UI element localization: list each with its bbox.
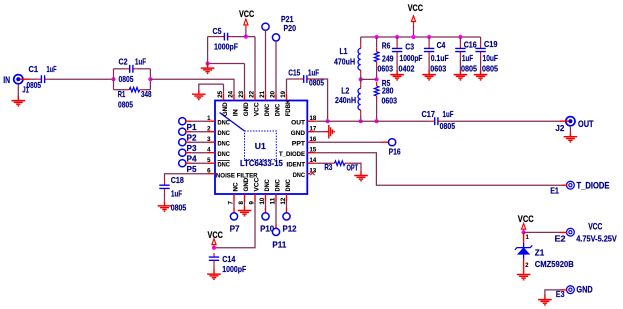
svg-text:0402: 0402 xyxy=(399,63,415,73)
wire bus to C4 xyxy=(428,37,430,44)
U1 pin 1 indicator diagonal xyxy=(220,113,245,132)
U1 exposed pad dashed box xyxy=(245,131,277,160)
wire pin 11 to P11 xyxy=(275,202,277,225)
pin circle P11 xyxy=(272,228,279,235)
svg-text:P5: P5 xyxy=(187,164,197,174)
junction R5/output xyxy=(375,119,379,123)
wire pin 25 to ground xyxy=(199,84,224,90)
wire C15 to output row xyxy=(311,79,328,121)
wire P20 to pin 20 xyxy=(275,41,277,94)
connector J2 xyxy=(566,117,575,126)
wire R6 to R5 xyxy=(376,66,378,80)
wire P7 lead xyxy=(233,208,235,213)
svg-text:11: 11 xyxy=(269,197,276,204)
svg-text:1000pF: 1000pF xyxy=(222,264,246,274)
ground at C19 xyxy=(474,70,488,80)
inductor L2 xyxy=(358,84,361,114)
svg-text:C4: C4 xyxy=(437,40,446,50)
VCC arrow top-right xyxy=(411,16,415,25)
svg-text:DNC: DNC xyxy=(218,120,231,127)
pin circle P12 xyxy=(283,213,290,220)
svg-text:P7: P7 xyxy=(230,223,240,233)
svg-text:J2: J2 xyxy=(555,123,564,133)
wire J1 to ground xyxy=(17,84,19,96)
svg-text:R3: R3 xyxy=(324,162,332,172)
wire to E2 xyxy=(524,231,560,233)
ground at pin 25 xyxy=(192,90,206,100)
terminal E1 xyxy=(567,181,575,189)
svg-text:VCC: VCC xyxy=(253,102,260,116)
wire C4 to ground xyxy=(428,56,430,70)
svg-text:DNC: DNC xyxy=(218,130,231,137)
junction VCC at C5 xyxy=(244,35,248,39)
pin J1.1 stub xyxy=(20,78,30,80)
pin circle P16 xyxy=(389,139,396,146)
ground at pin 17 xyxy=(324,125,334,139)
svg-text:C5: C5 xyxy=(213,26,222,36)
resistor R6 xyxy=(374,48,379,66)
wire R3 to ground xyxy=(349,163,361,171)
zener diode Z1 xyxy=(515,243,532,259)
svg-text:VCC: VCC xyxy=(239,9,254,20)
wire L1 to L2 xyxy=(360,74,362,84)
wire pin 19 to C15 xyxy=(287,78,300,80)
svg-text:OPT: OPT xyxy=(347,163,359,173)
ground at C14 xyxy=(207,270,221,280)
svg-text:C16: C16 xyxy=(464,40,477,50)
svg-text:9: 9 xyxy=(248,201,255,205)
pin circle P20 xyxy=(272,34,279,41)
svg-text:Z1: Z1 xyxy=(535,247,545,257)
ground at pin 8 xyxy=(238,206,252,216)
svg-text:P12: P12 xyxy=(283,223,297,233)
svg-text:GND: GND xyxy=(243,102,250,116)
ground at C16 xyxy=(454,70,468,80)
wire P3 to pin 3 xyxy=(191,141,208,143)
Z1 pin 1 lead xyxy=(523,232,525,242)
wire P21 to pin 21 xyxy=(265,30,267,94)
ground at C3 xyxy=(390,70,404,80)
svg-text:12: 12 xyxy=(280,197,287,204)
capacitor C19 xyxy=(475,44,485,55)
pin circle P2 xyxy=(179,128,186,135)
svg-text:C3: C3 xyxy=(405,42,414,52)
pin 12 stub xyxy=(286,194,288,202)
svg-text:PPT: PPT xyxy=(292,141,305,148)
VCC arrow top-left xyxy=(244,19,248,28)
svg-text:2: 2 xyxy=(525,262,529,269)
svg-text:1: 1 xyxy=(207,115,211,122)
svg-text:E2: E2 xyxy=(555,234,566,244)
capacitor C5 xyxy=(220,33,231,41)
junction bus x=429.1 xyxy=(427,35,431,39)
pin 23 stub xyxy=(244,94,246,101)
wire L1/L2 to R6/R5 xyxy=(361,78,377,80)
wire VCC to bus xyxy=(413,25,415,37)
capacitor C3 xyxy=(392,44,402,55)
svg-text:1uF: 1uF xyxy=(308,67,319,77)
wire pin 10 to P10 xyxy=(265,202,267,209)
ground at J1 xyxy=(12,96,26,106)
pin circle P5 xyxy=(179,160,186,167)
wire pin 16 to P16 xyxy=(315,141,382,143)
capacitor C16 xyxy=(455,44,465,55)
wire pin 23 to C5 node xyxy=(208,63,245,65)
svg-text:3: 3 xyxy=(207,136,211,143)
wire pin 17 xyxy=(315,131,324,133)
no-connect X at pin 13 xyxy=(310,171,314,175)
svg-text:C2: C2 xyxy=(119,57,128,67)
wire pin 18 to C17 xyxy=(315,120,431,122)
pin 21 stub xyxy=(265,94,267,101)
wire P1 to pin 1 xyxy=(191,120,208,122)
wire C18 to ground xyxy=(164,192,166,201)
pin 25 stub xyxy=(223,94,225,101)
svg-text:T_DIODE: T_DIODE xyxy=(279,151,305,158)
svg-text:0805: 0805 xyxy=(27,80,42,90)
inductor L1 xyxy=(358,44,361,74)
wire C5 to pin 22 xyxy=(232,36,255,38)
wire P1 lead xyxy=(186,120,191,122)
wire pin 23 up xyxy=(244,64,246,94)
wire bus to R6 xyxy=(376,37,378,48)
svg-text:LTC6433-15: LTC6433-15 xyxy=(240,158,283,168)
VCC arrow bottom xyxy=(212,239,216,248)
svg-text:19: 19 xyxy=(280,91,287,98)
junction VCC/C14 xyxy=(212,246,216,250)
junction L1/L2 xyxy=(359,77,363,81)
pin 4 stub xyxy=(208,152,216,154)
wire pin 6 to C18 xyxy=(165,174,208,182)
svg-text:4: 4 xyxy=(207,147,211,154)
wire bus to C16 xyxy=(459,37,461,44)
svg-text:0603: 0603 xyxy=(430,63,446,73)
pin 1 stub xyxy=(208,120,216,122)
svg-text:VCC: VCC xyxy=(588,222,602,233)
wire C16 to ground xyxy=(459,56,461,70)
svg-text:OUT: OUT xyxy=(578,119,594,130)
wire C2/R1 left edge xyxy=(113,69,115,90)
wire pin 19 up xyxy=(286,79,288,94)
capacitor C18 xyxy=(159,181,169,192)
svg-text:E3: E3 xyxy=(556,289,565,299)
wire P11 lead xyxy=(275,224,277,229)
svg-text:VCC: VCC xyxy=(518,214,534,225)
svg-text:348: 348 xyxy=(141,89,152,99)
svg-text:0603: 0603 xyxy=(382,96,398,106)
VCC arrow at Z1 xyxy=(522,223,526,232)
svg-text:IN: IN xyxy=(232,109,239,116)
svg-text:C19: C19 xyxy=(484,39,498,49)
svg-text:L2: L2 xyxy=(341,86,349,96)
wire P2 to pin 2 xyxy=(191,131,208,133)
pin 8 stub xyxy=(244,194,246,202)
wire to R1 left xyxy=(114,89,126,91)
capacitor C14 xyxy=(209,253,219,264)
pin 19 stub xyxy=(286,94,288,101)
svg-text:0805: 0805 xyxy=(461,63,477,73)
E3 lead xyxy=(560,289,567,291)
wire VCC arrow down xyxy=(245,28,247,36)
svg-text:P1: P1 xyxy=(187,122,197,132)
svg-text:P2: P2 xyxy=(187,133,197,143)
pin 11 stub xyxy=(275,194,277,202)
junction C2/R1 left xyxy=(111,77,115,81)
pin 6 stub xyxy=(208,173,216,175)
pin 9 stub xyxy=(254,194,256,202)
wire E3 to ground xyxy=(545,290,560,295)
capacitor C17 xyxy=(431,117,442,125)
svg-text:GND: GND xyxy=(222,102,229,116)
junction C5/ground xyxy=(206,61,210,65)
svg-text:L1: L1 xyxy=(340,46,348,56)
pin 3 stub xyxy=(208,141,216,143)
svg-text:C17: C17 xyxy=(422,109,436,119)
junction bus x=397.1 xyxy=(395,35,399,39)
svg-text:249: 249 xyxy=(382,54,394,64)
wire IN net to pin 24 xyxy=(150,79,234,94)
wire J1 to C1 xyxy=(30,78,37,80)
wire P2 lead xyxy=(186,131,191,133)
resistor R3 xyxy=(331,161,349,166)
svg-text:GND: GND xyxy=(576,284,592,295)
wire C2/R1 right edge xyxy=(149,69,151,90)
ground at C18 xyxy=(158,201,172,211)
pin 18 stub xyxy=(307,120,315,122)
pin 20 stub xyxy=(275,94,277,101)
wire J2 to ground xyxy=(569,126,571,132)
svg-text:C1: C1 xyxy=(29,64,39,74)
svg-text:DNC: DNC xyxy=(285,179,292,192)
svg-text:DNC: DNC xyxy=(218,162,231,169)
svg-text:22: 22 xyxy=(248,91,255,98)
pin 10 stub xyxy=(265,194,267,202)
svg-text:R1: R1 xyxy=(118,89,126,99)
wire P4 to pin 4 xyxy=(191,152,208,154)
svg-text:1uF: 1uF xyxy=(47,64,57,74)
svg-text:P20: P20 xyxy=(284,23,297,33)
svg-text:0805: 0805 xyxy=(440,121,456,131)
svg-text:7: 7 xyxy=(227,201,234,205)
wire bus to C3 xyxy=(396,37,398,44)
junction bus x=460.4 xyxy=(458,35,462,39)
pin circle P3 xyxy=(179,139,186,146)
wire P12 lead xyxy=(286,208,288,213)
pin circle P10 xyxy=(262,213,269,220)
wire P3 lead xyxy=(186,141,191,143)
pin circle P7 xyxy=(230,213,237,220)
svg-text:21: 21 xyxy=(259,91,266,98)
svg-text:470uH: 470uH xyxy=(334,57,355,67)
svg-text:DNC: DNC xyxy=(218,141,231,148)
pin 15 stub xyxy=(307,152,315,154)
ground at R3 xyxy=(354,171,368,181)
svg-text:280: 280 xyxy=(382,86,394,96)
wire P10 lead xyxy=(265,208,267,213)
pin 24 stub xyxy=(233,94,235,101)
svg-text:IDENT: IDENT xyxy=(287,162,306,169)
svg-text:10: 10 xyxy=(259,197,266,204)
svg-text:20: 20 xyxy=(269,91,276,98)
svg-text:24: 24 xyxy=(227,91,234,98)
junction R6/R5 xyxy=(375,77,379,81)
svg-text:P11: P11 xyxy=(272,239,286,249)
pin circle P4 xyxy=(179,149,186,156)
wire P16 lead xyxy=(382,141,389,143)
wire C1 to C2/R1 xyxy=(49,78,114,80)
wire C2 right xyxy=(137,68,151,70)
pin circle P1 xyxy=(179,118,186,125)
svg-text:23: 23 xyxy=(238,91,245,98)
junction bus x=376.6 xyxy=(375,35,379,39)
svg-text:P3: P3 xyxy=(187,143,197,153)
svg-text:P4: P4 xyxy=(187,154,197,164)
wire P5 to pin 5 xyxy=(191,162,208,164)
resistor R5 xyxy=(374,82,379,100)
svg-text:VCC: VCC xyxy=(253,177,260,191)
supply bus wire xyxy=(361,36,481,38)
wire R5 to output row xyxy=(376,100,378,121)
svg-text:C15: C15 xyxy=(288,67,300,77)
svg-text:5: 5 xyxy=(207,157,211,164)
terminal E3 xyxy=(567,286,575,294)
ground at C4 xyxy=(422,70,436,80)
pin 22 stub xyxy=(254,94,256,101)
svg-text:1000pF: 1000pF xyxy=(214,42,238,52)
ground at Z1 xyxy=(517,270,531,280)
E2 lead xyxy=(560,231,568,233)
svg-text:E1: E1 xyxy=(550,185,559,195)
wire pin 7 to P7 xyxy=(233,202,235,209)
wire to C5 xyxy=(208,36,221,38)
overline for DNC pin 5 xyxy=(218,160,230,162)
resistor R1 xyxy=(126,87,144,92)
svg-text:240nH: 240nH xyxy=(335,95,356,105)
wire L2 to output row xyxy=(360,114,362,121)
svg-text:0805: 0805 xyxy=(118,99,133,109)
svg-text:R6: R6 xyxy=(382,41,391,51)
wire C14 to ground xyxy=(213,264,215,269)
ground at E3 xyxy=(538,295,552,305)
wire C5 node up xyxy=(207,37,209,64)
svg-text:DNC: DNC xyxy=(274,179,281,192)
wire pin 9 to VCC node xyxy=(214,202,255,248)
capacitor C4 xyxy=(424,44,434,55)
connector J1 xyxy=(14,75,23,84)
junction C2/R1 right xyxy=(148,77,152,81)
svg-text:VCC: VCC xyxy=(408,3,423,14)
svg-text:1uF: 1uF xyxy=(443,109,454,119)
svg-text:0805: 0805 xyxy=(119,74,134,84)
wire pin 14 to R3 xyxy=(315,162,331,164)
svg-text:P16: P16 xyxy=(389,147,401,157)
terminal E2 xyxy=(567,228,575,236)
svg-text:6: 6 xyxy=(207,168,211,175)
svg-text:1uF: 1uF xyxy=(135,57,146,67)
svg-text:1: 1 xyxy=(526,234,530,241)
svg-text:GND: GND xyxy=(291,130,306,137)
Z1 pin 2 lead xyxy=(523,259,525,270)
wire P5 lead xyxy=(186,162,191,164)
svg-text:DNC: DNC xyxy=(264,104,271,117)
wire C19 to ground xyxy=(480,56,482,70)
wire pin 12 to P12 xyxy=(286,202,288,209)
ground at J2 xyxy=(564,132,578,142)
svg-text:8: 8 xyxy=(238,201,245,205)
wire bus to L1 xyxy=(360,37,362,44)
wire bus to C19 xyxy=(480,37,482,44)
svg-text:FDBK: FDBK xyxy=(285,99,292,116)
wire pin 8 to ground xyxy=(244,202,246,206)
svg-text:U1: U1 xyxy=(255,141,266,151)
svg-text:10uF: 10uF xyxy=(483,53,499,63)
wire P4 lead xyxy=(186,152,191,154)
junction Z1/E2 xyxy=(522,230,526,234)
svg-text:0805: 0805 xyxy=(482,63,498,73)
wire C17 to J2 xyxy=(442,120,560,122)
svg-text:1000pF: 1000pF xyxy=(400,53,423,63)
pin 16 stub xyxy=(307,141,315,143)
junction L2/output xyxy=(359,119,363,123)
svg-text:25: 25 xyxy=(217,91,224,98)
wire to C2 left xyxy=(114,68,126,70)
wire pin 15 to E1 xyxy=(315,153,562,186)
svg-text:T_DIODE: T_DIODE xyxy=(577,180,610,191)
svg-text:1uF: 1uF xyxy=(171,188,182,198)
pin 5 stub xyxy=(208,162,216,164)
pin 2 stub xyxy=(208,131,216,133)
junction bus x=413.5 xyxy=(411,35,415,39)
svg-text:GND: GND xyxy=(243,177,250,191)
svg-text:DNC: DNC xyxy=(264,179,271,192)
ground at C5 xyxy=(201,64,215,74)
op-amp U1 LTC6433-15 body xyxy=(215,101,307,195)
svg-text:OUT: OUT xyxy=(291,120,305,127)
svg-text:2: 2 xyxy=(207,126,211,133)
svg-text:0.1uF: 0.1uF xyxy=(431,53,449,63)
wire R1 right xyxy=(143,89,150,91)
svg-text:4.75V-5.25V: 4.75V-5.25V xyxy=(576,234,617,244)
svg-text:NC: NC xyxy=(232,182,239,191)
pin 13 stub xyxy=(307,173,310,175)
svg-text:C14: C14 xyxy=(222,254,235,264)
junction feedback/output xyxy=(326,119,330,123)
svg-text:CMZ5920B: CMZ5920B xyxy=(535,259,574,269)
capacitor C15 xyxy=(300,75,311,83)
svg-text:1uF: 1uF xyxy=(462,53,473,63)
capacitor C2 xyxy=(126,65,137,73)
svg-text:NOISE FILTER: NOISE FILTER xyxy=(216,173,258,180)
svg-text:DNC: DNC xyxy=(274,104,281,117)
wire pin 25 up xyxy=(223,84,225,94)
E1 lead xyxy=(562,184,568,186)
svg-text:DNC: DNC xyxy=(293,172,306,179)
wire C3 to ground xyxy=(396,56,398,70)
J2 lead xyxy=(560,120,568,122)
capacitor C1 xyxy=(37,75,48,83)
wire pin 22 down xyxy=(254,37,256,94)
pin circle P21 xyxy=(262,23,269,30)
pin 14 stub xyxy=(307,162,315,164)
svg-text:0805: 0805 xyxy=(171,202,187,212)
svg-text:IN: IN xyxy=(3,75,10,86)
pin 17 stub xyxy=(307,131,315,133)
svg-text:VCC: VCC xyxy=(208,230,223,241)
svg-text:C18: C18 xyxy=(171,175,184,185)
pin 7 stub xyxy=(233,194,235,202)
svg-text:0603: 0603 xyxy=(378,63,394,73)
svg-text:DNC: DNC xyxy=(218,151,231,158)
